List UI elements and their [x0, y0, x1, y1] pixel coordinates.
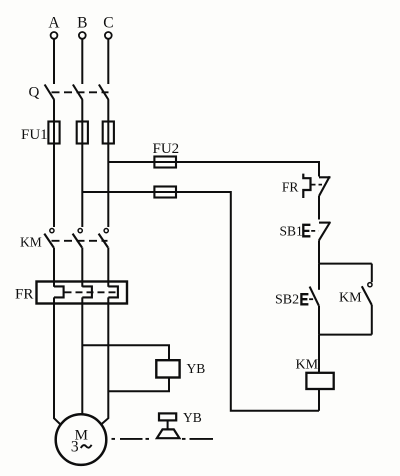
- wire FR box to motor pole2: [81, 297, 83, 414]
- brake YB shoe trapezoid: [157, 429, 180, 438]
- svg-text:SB2: SB2: [275, 293, 299, 308]
- relay FR heater pole2: [82, 286, 92, 297]
- contactor KM main pole2 blade: [73, 234, 82, 248]
- button SB1 tick: [319, 222, 331, 224]
- terminal B: [79, 32, 86, 39]
- svg-text:FR: FR: [15, 287, 33, 303]
- contact FR tick: [319, 176, 331, 178]
- relay FR heater pole3: [108, 286, 118, 297]
- switch Q pole 3 blade: [99, 85, 109, 101]
- wire switch to FU1 pole1: [53, 100, 55, 144]
- wire phase B to switch: [81, 39, 83, 84]
- fuse FU2 upper: [154, 157, 176, 168]
- svg-text:YB: YB: [187, 361, 206, 376]
- brake coil YB: [156, 360, 179, 377]
- contactor KM linkage dashed: [52, 240, 108, 242]
- svg-text:FR: FR: [282, 179, 299, 194]
- fuse FU1 pole1: [48, 122, 59, 144]
- wire SB2 to lower branch node: [318, 306, 320, 335]
- svg-text:FU2: FU2: [153, 141, 180, 157]
- wire KM contacts to FR box pole3: [107, 248, 109, 287]
- button SB2 actuator E: [301, 294, 308, 304]
- contact KM auxiliary blade: [362, 286, 372, 305]
- svg-text:A: A: [48, 15, 60, 32]
- wire FR to SB1: [318, 196, 320, 220]
- button SB2 blade: [310, 287, 319, 306]
- button SB2 link dashed: [309, 298, 315, 300]
- contactor KM main pole3 circle: [104, 229, 108, 233]
- wire switch to FU1 pole2: [81, 100, 83, 144]
- svg-text:KM: KM: [20, 234, 42, 249]
- wire brake coil return: [108, 378, 169, 392]
- wire control line 1 from phase C: [108, 162, 319, 177]
- svg-text:B: B: [77, 15, 87, 32]
- svg-text:FU1: FU1: [21, 127, 48, 143]
- terminal A: [51, 32, 58, 39]
- svg-text:SB1: SB1: [280, 223, 303, 238]
- contact FR blade: [319, 176, 330, 196]
- wire FR box to motor pole1: [54, 297, 61, 425]
- svg-text:YB: YB: [183, 410, 202, 425]
- wire control line 2 from phase B: [82, 192, 319, 411]
- wire FR box to motor pole3: [101, 297, 108, 424]
- svg-text:C: C: [103, 15, 113, 32]
- wire branch to KM aux: [371, 264, 373, 283]
- svg-text:3: 3: [71, 439, 79, 456]
- contact FR link dashed: [312, 184, 323, 186]
- svg-text:KM: KM: [339, 291, 362, 306]
- brake YB armature rect: [159, 413, 176, 420]
- fuse FU1 pole2: [77, 122, 88, 144]
- relay FR heater pole1: [54, 286, 64, 297]
- switch Q linkage dashed: [52, 91, 109, 93]
- wire FU1 to KM contacts pole1: [53, 144, 55, 228]
- button SB1 blade: [319, 222, 330, 240]
- contact FR thermal element: [303, 174, 310, 198]
- wire KM contacts to FR box pole1: [53, 248, 55, 287]
- brake YB stem: [167, 420, 169, 429]
- wire KM contacts to FR box pole2: [81, 248, 83, 287]
- wire FU1 to KM contacts pole3: [107, 144, 109, 228]
- wire FU1 to KM contacts pole2: [81, 144, 83, 228]
- wire KM aux down: [371, 305, 373, 335]
- switch Q pole 1 blade: [45, 85, 55, 101]
- fuse FU2 lower: [154, 187, 176, 198]
- shaft dash-dot line: [112, 438, 214, 440]
- coil KM: [306, 373, 333, 389]
- wire switch to FU1 pole3: [107, 100, 109, 144]
- contact KM auxiliary pivot circle: [368, 283, 372, 287]
- wire phase A to switch: [53, 39, 55, 84]
- contactor KM main pole1 circle: [50, 229, 54, 233]
- motor M1: [56, 414, 107, 465]
- button SB1 link dashed: [311, 230, 318, 232]
- wire to brake coil YB: [82, 345, 169, 360]
- wire branch to SB2: [318, 264, 320, 290]
- wire branch top horizontal: [319, 263, 372, 265]
- contactor KM main pole2 circle: [78, 229, 82, 233]
- svg-text:Q: Q: [29, 85, 40, 101]
- wire phase C to switch: [107, 39, 109, 84]
- wire node to KM coil: [318, 335, 320, 373]
- wire KM coil to bottom rail: [318, 389, 320, 411]
- relay FR linkage dashed: [65, 291, 118, 293]
- svg-text:KM: KM: [296, 357, 319, 372]
- wire branch bottom horizontal: [319, 334, 372, 336]
- terminal C: [105, 32, 112, 39]
- switch Q pole 2 blade: [73, 85, 83, 101]
- wire SB1 to branch node: [318, 240, 320, 263]
- relay FR box: [37, 282, 128, 304]
- contactor KM main pole1 blade: [44, 234, 53, 248]
- contactor KM main pole3 blade: [99, 234, 108, 248]
- button SB1 actuator E: [303, 225, 310, 237]
- fuse FU1 pole3: [103, 122, 114, 144]
